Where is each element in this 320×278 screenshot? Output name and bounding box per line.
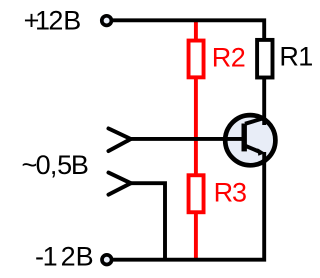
resistor R1 bbox=[257, 40, 272, 78]
wire +12V rail and down to R1 bbox=[112, 20, 265, 41]
input chevron 2 bbox=[109, 173, 131, 195]
svg-text:-12В: -12В bbox=[35, 242, 94, 272]
terminal +12V bbox=[102, 16, 112, 26]
wire R1 to collector bbox=[262, 78, 266, 125]
svg-text:R3: R3 bbox=[214, 178, 247, 208]
wire red branch: +12V rail to R2 bbox=[194, 19, 198, 41]
svg-text:+12В: +12В bbox=[24, 5, 82, 35]
transistor Q1 emitter arrow bbox=[258, 148, 266, 156]
resistor R3 bbox=[189, 175, 204, 212]
wire base input bbox=[130, 137, 242, 141]
svg-text:R2: R2 bbox=[212, 43, 246, 73]
resistor R2 bbox=[189, 41, 204, 78]
transistor Q1 emitter lead bbox=[244, 145, 259, 152]
transistor Q1 body bbox=[225, 115, 275, 165]
wire R2 to R3 bbox=[194, 77, 198, 176]
wire input 2 to -12V rail bbox=[130, 183, 165, 260]
wire emitter to -12V rail bbox=[112, 152, 265, 260]
terminal -12V bbox=[102, 255, 112, 265]
transistor Q1 collector lead bbox=[245, 118, 264, 124]
svg-text:R1: R1 bbox=[279, 42, 313, 72]
svg-text:~0,5В: ~0,5В bbox=[22, 150, 89, 180]
transistor Q1 base bar bbox=[241, 124, 246, 152]
wire R3 to -12V rail bbox=[194, 212, 198, 260]
input chevron 1 (base) bbox=[109, 129, 131, 152]
